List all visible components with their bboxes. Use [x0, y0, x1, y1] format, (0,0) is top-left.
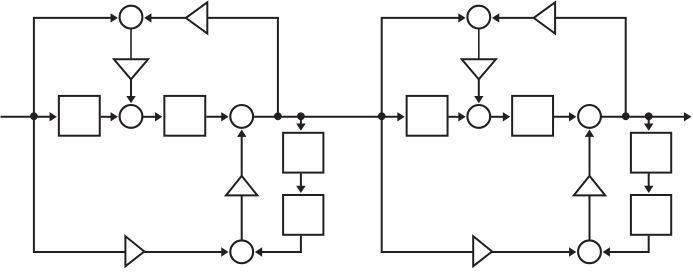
box D22 (second delay block)	[631, 195, 671, 235]
wire S1 feedback vertical	[277, 18, 279, 117]
arrow S2 into adder A24 right	[603, 247, 610, 256]
node S1 input junction dot	[30, 112, 38, 120]
arrow S2 into adder A21 right	[492, 13, 499, 22]
wire S1 adder A12 to box B12	[142, 116, 156, 118]
wire S2 gain G23 apex to adder A21	[498, 17, 534, 19]
wire S1 box B12 to adder A13	[206, 116, 222, 118]
adder A22 (main-line summing junction, left)	[467, 105, 490, 128]
arrow S2 into adder A22 top	[474, 96, 483, 103]
wire S2 gain G24 apex to adder A24	[492, 251, 570, 253]
wire S1 box B11 to adder A12	[101, 116, 112, 118]
wire S1 gain G12 apex to adder A13	[241, 136, 243, 176]
wire S1 adder A11 down to gain G11	[130, 28, 132, 59]
wire input line	[1, 116, 34, 118]
box B22 (second coefficient block)	[512, 96, 553, 136]
wire output line	[601, 116, 690, 118]
arrow S1 into adder A13 left	[221, 112, 228, 121]
wire S2 box B22 to adder A23	[554, 116, 570, 118]
box B11 (first coefficient block)	[59, 96, 100, 136]
adder A13 (main-line summing junction, right)	[230, 105, 253, 128]
adder A12 (main-line summing junction, left)	[120, 105, 143, 128]
wire S1 adder A14 up to gain G12	[241, 195, 243, 241]
wire S2 gain G22 apex to adder A23	[589, 136, 591, 176]
adder A23 (main-line summing junction, right)	[578, 105, 601, 128]
gain G14 (right-pointing triangle, bottom feed-forward)	[125, 236, 144, 266]
gain G22 (up-pointing triangle)	[574, 176, 605, 196]
wire S2 adder A21 down to gain G21	[478, 28, 480, 59]
arrow S2 into adder A23 bottom	[585, 130, 594, 137]
wire S2 box D22 down and left to adder A24	[609, 236, 649, 252]
adder A11 (top summing junction)	[120, 6, 143, 29]
arrow S2 into box B21	[397, 112, 404, 121]
node S1 feedback junction dot	[274, 112, 282, 120]
arrow S2 into adder A21 left	[458, 13, 465, 22]
arrow output at right edge	[684, 112, 691, 121]
arrow S1 into box D11 top	[296, 124, 305, 131]
wire S2 main line down to box D21	[648, 117, 650, 125]
wire S1 bottom-left horizontal to gain G14	[34, 251, 126, 253]
wire S1 node to box B11	[34, 116, 51, 118]
node S2 feedback junction dot	[622, 112, 630, 120]
gain G23 (left-pointing triangle, top feedback)	[534, 2, 555, 33]
box D21 (first delay block)	[631, 133, 671, 173]
wire S2 feedback vertical	[625, 18, 627, 117]
arrow S2 into box D22 top	[644, 186, 653, 193]
arrow S1 into box D12 top	[296, 186, 305, 193]
arrow S2 into box D21 top	[644, 124, 653, 131]
wire S1 top-left horizontal to adder A11	[34, 17, 112, 19]
arrow S1 into box B11	[50, 112, 57, 121]
wire S1 gain G13 apex to adder A11	[150, 17, 186, 19]
adder A21 (top summing junction)	[467, 6, 490, 29]
arrow S2 into adder A23 left	[569, 112, 576, 121]
adder A14 (bottom summing junction)	[230, 240, 253, 263]
arrow S1 into box B12	[155, 112, 162, 121]
wire S1 gain G13 base to feedback corner	[207, 17, 279, 19]
node S2 input junction dot	[378, 112, 386, 120]
wire S1 gain G11 apex to adder A12	[130, 79, 132, 97]
arrow S2 into box B22	[503, 112, 510, 121]
wire S2 top-left horizontal to adder A21	[382, 17, 460, 19]
wire S2 bottom-left horizontal to gain G24	[382, 251, 474, 253]
arrow S1 into adder A12 top	[126, 96, 135, 103]
arrow S1 into adder A12 left	[111, 112, 118, 121]
gain G24 (right-pointing triangle, bottom feed-forward)	[473, 236, 492, 266]
arrow S1 into adder A11 left	[111, 13, 118, 22]
box D12 (second delay block)	[283, 195, 323, 235]
arrow S1 into adder A14 left	[221, 247, 228, 256]
box B21 (first coefficient block)	[407, 96, 448, 136]
node S1 delay-chain junction dot	[297, 112, 305, 120]
box D11 (first delay block)	[283, 133, 323, 173]
gain G11 (down-pointing triangle)	[114, 59, 148, 79]
arrow S1 into adder A11 right	[144, 13, 151, 22]
wire S2 box B21 to adder A22	[449, 116, 460, 118]
wire S2 adder A22 to box B22	[490, 116, 504, 118]
wire S1 main line down to box D11	[300, 117, 302, 125]
wire main line between sections	[254, 116, 382, 118]
wire S1 box D11 to box D12	[300, 174, 302, 187]
wire S2 node to box B21	[382, 116, 399, 118]
wire S1 node column vertical	[33, 17, 35, 253]
box B12 (second coefficient block)	[164, 96, 205, 136]
gain G13 (left-pointing triangle, top feedback)	[186, 2, 207, 33]
arrow S1 into adder A13 bottom	[237, 130, 246, 137]
wire S2 node column vertical	[381, 17, 383, 253]
wire S1 gain G14 apex to adder A14	[144, 251, 222, 253]
wire S2 adder A24 up to gain G22	[589, 195, 591, 241]
wire S1 box D12 down and left to adder A14	[261, 236, 301, 252]
arrow S2 into adder A24 left	[569, 247, 576, 256]
wire S2 gain G23 base to feedback corner	[555, 17, 627, 19]
arrow S1 into adder A14 right	[255, 247, 262, 256]
wire S2 box D21 to box D22	[648, 174, 650, 187]
adder A24 (bottom summing junction)	[578, 240, 601, 263]
gain G21 (down-pointing triangle)	[462, 59, 496, 79]
gain G12 (up-pointing triangle)	[226, 176, 257, 196]
node S2 delay-chain junction dot	[645, 112, 653, 120]
arrow S2 into adder A22 left	[458, 112, 465, 121]
wire S2 gain G21 apex to adder A22	[478, 79, 480, 97]
